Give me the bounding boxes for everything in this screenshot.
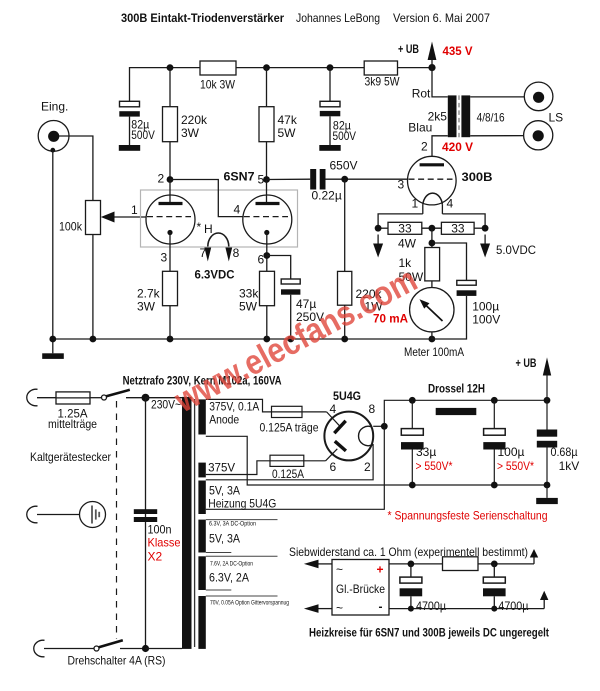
svg-text:5V, 3A: 5V, 3A <box>209 532 240 546</box>
wire HV centre tap to 0V rail <box>206 436 547 485</box>
secondary winding 5V 3A Heizung <box>198 481 205 515</box>
svg-text:0.68µ: 0.68µ <box>551 445 578 459</box>
wire filament pin1 to 33 row <box>378 214 423 228</box>
resistor 220k 3W <box>163 68 209 180</box>
wire pin8 to node <box>373 425 384 427</box>
svg-text:7.6V, 2A DC-Option: 7.6V, 2A DC-Option <box>210 561 253 568</box>
capacitor 100u 550V <box>483 400 534 485</box>
pin6 lead <box>326 449 338 461</box>
tube 300B <box>398 156 493 214</box>
wire to switch S1b <box>44 648 94 650</box>
arrow heater AC bottom <box>304 604 332 613</box>
node dots ground rail <box>49 336 435 343</box>
LS jack bottom <box>524 121 553 150</box>
wire top rail mid <box>236 67 364 69</box>
svg-text:33: 33 <box>398 222 412 236</box>
svg-text:6.3V, 3A DC-Option: 6.3V, 3A DC-Option <box>209 521 256 528</box>
resistor 1k 50W <box>399 248 440 288</box>
svg-text:5W: 5W <box>278 126 297 140</box>
svg-text:*: * <box>197 220 202 234</box>
svg-text:Drehschalter 4A (RS): Drehschalter 4A (RS) <box>68 654 166 668</box>
svg-text:220k: 220k <box>181 113 208 127</box>
svg-text:Rot: Rot <box>412 87 431 101</box>
capacitor 0.22u 650V coupling <box>267 159 408 203</box>
resistor 220k 1W grid leak <box>338 179 384 339</box>
+UB arrow right <box>516 356 552 400</box>
capacitor 4700u first <box>400 564 446 613</box>
potentiometer 100k <box>59 201 147 340</box>
fuse 1.25A <box>48 392 97 431</box>
resistor 47k 5W <box>259 68 298 180</box>
svg-text:3W: 3W <box>181 126 200 140</box>
node pin6 <box>263 252 270 259</box>
secondary winding 70V option <box>198 596 205 649</box>
resistor 33 right <box>422 222 485 236</box>
svg-text:Siebwiderstand ca. 1 Ohm (expe: Siebwiderstand ca. 1 Ohm (experimentell … <box>289 545 528 559</box>
node mains N bottom <box>142 645 149 652</box>
svg-text:100µ: 100µ <box>472 300 499 314</box>
svg-text:100n: 100n <box>148 523 172 537</box>
svg-text:7: 7 <box>200 246 207 260</box>
input RCA jack Eing. <box>38 100 93 340</box>
wire Blau to 300B anode <box>432 136 448 165</box>
capacitor 100u 100V <box>432 243 500 339</box>
svg-text:500V: 500V <box>131 128 155 142</box>
capacitor 4700u second <box>483 564 528 613</box>
svg-text:4: 4 <box>447 197 454 211</box>
svg-text:8: 8 <box>369 402 376 416</box>
grid dashed <box>147 216 191 218</box>
mains connector pin PE <box>27 506 38 523</box>
arrow DC out + <box>530 549 538 564</box>
svg-text:2: 2 <box>158 172 165 186</box>
anode plate <box>256 202 280 205</box>
svg-text:5V, 3A: 5V, 3A <box>209 484 240 498</box>
wire top rail B+ <box>130 68 201 102</box>
wire input ground side <box>52 150 54 339</box>
ground symbol <box>42 339 64 359</box>
svg-text:LS: LS <box>549 111 564 125</box>
transformer core lines <box>194 399 196 647</box>
svg-text:Johannes LeBong: Johannes LeBong <box>296 11 380 25</box>
svg-text:435 V: 435 V <box>443 44 473 58</box>
arrow 5V left <box>373 235 383 258</box>
wire pin8 node up to B+ rail <box>384 400 547 426</box>
svg-text:Heizkreise für 6SN7 und 300B j: Heizkreise für 6SN7 und 300B jeweils DC … <box>309 626 549 640</box>
svg-text:* Spannungsfeste Serienschaltu: * Spannungsfeste Serienschaltung <box>388 509 548 523</box>
svg-text:-: - <box>379 600 383 614</box>
svg-text:6SN7: 6SN7 <box>224 170 255 184</box>
wire PE to earth <box>37 514 92 516</box>
svg-text:33: 33 <box>451 222 465 236</box>
node dots heater DC <box>408 561 415 568</box>
wire direct coupling anode1 to grid2 <box>170 180 243 217</box>
resistor 33k 5W <box>239 271 275 339</box>
earth symbol in circle <box>80 502 106 528</box>
cathode arc <box>359 426 373 445</box>
svg-text:300B: 300B <box>462 170 493 184</box>
capacitor 100n X2 <box>134 509 181 563</box>
wire bridge + to resistor <box>389 563 443 565</box>
node dots 0V rail <box>409 482 416 489</box>
grid dashed <box>244 216 288 218</box>
wire mains N down <box>145 398 147 649</box>
svg-text:375V: 375V <box>208 461 235 475</box>
fuse 0.125A traege <box>260 406 319 434</box>
anode 2 stroke <box>335 441 346 451</box>
switch S1a <box>102 390 144 400</box>
svg-text:100V: 100V <box>472 313 500 327</box>
switch gang dashed link <box>116 401 118 639</box>
anode plate <box>159 202 183 205</box>
switch S1b Drehschalter <box>94 640 146 651</box>
6SN7 envelope box <box>141 190 298 247</box>
svg-text:0.125A: 0.125A <box>272 467 304 481</box>
resistor 2.7k 3W <box>137 271 178 339</box>
svg-text:Klasse: Klasse <box>148 536 181 550</box>
choke Drossel 12H <box>428 382 485 416</box>
wire HV winding bottom to fuse 0.125A <box>206 461 270 475</box>
output transformer 2k5 : 4/8/16 <box>408 95 505 137</box>
svg-text:4700µ: 4700µ <box>498 599 528 613</box>
svg-text:+ UB: + UB <box>516 356 537 370</box>
node junction dots top rail <box>167 64 436 71</box>
svg-text:4700µ: 4700µ <box>416 599 446 613</box>
svg-text:~: ~ <box>336 563 343 577</box>
svg-text:2: 2 <box>364 460 371 474</box>
svg-text:Drossel 12H: Drossel 12H <box>428 382 485 396</box>
svg-text:2: 2 <box>421 140 428 154</box>
svg-text:H: H <box>204 222 213 236</box>
mains connector pin N <box>34 640 45 657</box>
filament arc <box>423 193 443 205</box>
resistor 3k9 5W <box>364 61 397 75</box>
wire resistor to DC out <box>478 563 534 565</box>
wire pin2 down to 5V winding <box>206 444 373 480</box>
capacitor C1 82u 500V <box>119 101 155 151</box>
arrow DC out - <box>540 591 548 609</box>
arrow 5V right <box>480 235 490 258</box>
wire input to pot <box>59 136 93 201</box>
node dots 33 row <box>375 225 489 232</box>
svg-text:> 550V*: > 550V* <box>497 459 534 473</box>
node mains L <box>142 394 150 402</box>
svg-text:4/8/16: 4/8/16 <box>477 111 505 125</box>
svg-text:1kV: 1kV <box>559 459 580 473</box>
wire fuse to switch <box>90 397 102 399</box>
svg-text:Blau: Blau <box>408 121 432 135</box>
resistor 10k 3W <box>200 61 236 75</box>
secondary winding 375V 0.1A Anode <box>198 399 205 434</box>
svg-text:> 550V*: > 550V* <box>416 459 453 473</box>
svg-text:Eing.: Eing. <box>41 100 68 114</box>
svg-text:X2: X2 <box>148 550 163 564</box>
secondary winding 375V <box>198 463 205 478</box>
watermark www.elecfans.com <box>168 260 424 421</box>
capacitor C2 82u 500V <box>319 68 356 151</box>
svg-text:+ UB: + UB <box>398 42 419 56</box>
wire B+ to output transformer <box>432 68 448 97</box>
svg-text:33µ: 33µ <box>416 445 436 459</box>
wire secondary to LS jacks <box>470 96 533 98</box>
svg-text:Kaltgerätestecker: Kaltgerätestecker <box>30 450 111 464</box>
LS jack top <box>524 82 553 111</box>
wire fuse to 5U4G pin4 <box>302 411 327 413</box>
tap lines option windings <box>206 520 278 596</box>
svg-text:6.3VDC: 6.3VDC <box>195 268 235 282</box>
triode U1b 6SN7 second half <box>234 173 292 272</box>
svg-text:1: 1 <box>131 203 138 217</box>
svg-text:2.7k: 2.7k <box>137 287 161 301</box>
svg-text:4: 4 <box>234 203 241 217</box>
svg-text:~: ~ <box>336 601 343 615</box>
svg-text:33k: 33k <box>239 287 259 301</box>
capacitor 33u 550V <box>401 400 453 485</box>
bridge rectifier Gl.-Bruecke <box>332 560 389 616</box>
svg-text:6.3V, 2A: 6.3V, 2A <box>209 571 249 585</box>
triode U1a 6SN7 first half <box>131 172 195 272</box>
svg-text:0.22µ: 0.22µ <box>312 189 342 203</box>
+UB arrow 435V <box>398 42 473 68</box>
svg-text:mittelträge: mittelträge <box>48 417 97 431</box>
resistor Siebwiderstand 1 Ohm <box>443 557 479 571</box>
fuse 0.125A <box>270 455 304 481</box>
cathode dot <box>167 230 172 235</box>
svg-text:3: 3 <box>161 251 168 265</box>
svg-text:100k: 100k <box>59 220 83 234</box>
cathode dot <box>264 230 269 235</box>
svg-text:3k9 5W: 3k9 5W <box>365 75 401 89</box>
wire 33 centre tap down <box>431 228 433 247</box>
svg-text:5U4G: 5U4G <box>333 389 361 403</box>
svg-text:+: + <box>377 563 384 577</box>
secondary winding 5V 3A option <box>198 520 205 553</box>
anode plate <box>420 163 444 166</box>
svg-text:10k 3W: 10k 3W <box>200 78 236 92</box>
svg-text:4W: 4W <box>398 237 417 251</box>
svg-text:Anode: Anode <box>209 413 239 427</box>
svg-text:0.125A träge: 0.125A träge <box>260 421 319 435</box>
svg-text:Heizung 5U4G: Heizung 5U4G <box>208 497 276 511</box>
svg-text:4: 4 <box>330 402 337 416</box>
svg-text:5.0VDC: 5.0VDC <box>496 243 536 257</box>
mains connector pin L <box>27 389 38 406</box>
wire to fuse <box>37 397 56 399</box>
svg-text:Meter 100mA: Meter 100mA <box>404 345 464 359</box>
svg-text:5W: 5W <box>239 300 258 314</box>
svg-text:650V: 650V <box>330 159 358 173</box>
svg-text:Gl.-Brücke: Gl.-Brücke <box>336 582 385 596</box>
svg-text:6: 6 <box>258 253 265 267</box>
svg-text:1: 1 <box>412 197 419 211</box>
svg-text:420 V: 420 V <box>442 140 473 154</box>
wire fuse to 5U4G pin6 <box>304 460 326 462</box>
svg-text:8: 8 <box>233 246 240 260</box>
ground PSU <box>536 485 558 504</box>
secondary winding 6.3V 2A <box>198 556 205 590</box>
capacitor 0.68u 1kV <box>537 400 579 485</box>
anode 1 stroke <box>334 421 345 433</box>
resistor 33 left <box>378 222 422 251</box>
svg-text:70V, 0.05A Option Gittervorspa: 70V, 0.05A Option Gittervorspannug <box>210 600 289 607</box>
svg-text:6: 6 <box>330 460 337 474</box>
wire HV winding top to fuse 0.125A traege <box>206 399 272 412</box>
wire filament pin4 to 33 row <box>442 214 485 228</box>
power transformer primary winding <box>182 397 192 649</box>
ground rail bottom <box>53 338 432 340</box>
grid dashed <box>409 178 453 180</box>
wire node to primary bottom <box>146 648 183 650</box>
meter 100mA <box>373 288 464 360</box>
node pin5 <box>263 176 270 183</box>
svg-text:5: 5 <box>258 173 265 187</box>
node pin2 <box>167 176 174 183</box>
svg-text:100µ: 100µ <box>498 445 525 459</box>
pin4 lead <box>327 412 340 426</box>
svg-text:47k: 47k <box>278 113 298 127</box>
node dots B+ rail <box>409 397 416 404</box>
wire pin8 down to 5V winding <box>206 426 384 509</box>
rectifier 5U4G <box>324 389 375 474</box>
wiper arrow to grid pin 1 <box>113 216 147 218</box>
svg-text:500V: 500V <box>333 129 357 143</box>
svg-text:3W: 3W <box>137 300 156 314</box>
heater symbol H <box>195 220 240 282</box>
wire top rail right <box>398 67 433 69</box>
wire node to primary <box>146 397 183 399</box>
arrow heater AC top <box>304 560 332 569</box>
svg-text:300B Eintakt-Triodenverstärker: 300B Eintakt-Triodenverstärker <box>121 11 284 25</box>
svg-text:Version 6. Mai 2007: Version 6. Mai 2007 <box>393 11 490 25</box>
wire bridge - bottom rail <box>389 608 544 610</box>
capacitor 47u 250V cathode bypass <box>267 256 324 340</box>
svg-text:3: 3 <box>398 178 405 192</box>
